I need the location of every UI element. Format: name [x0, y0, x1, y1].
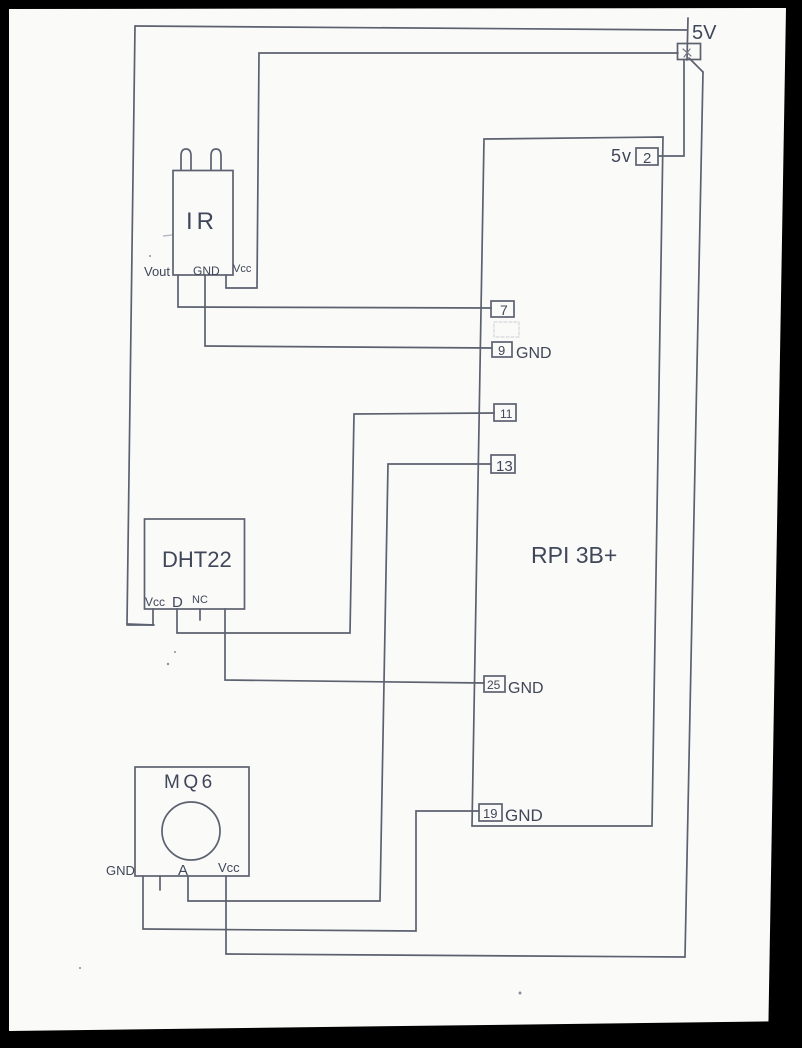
wire pin 13 to MQ6 A	[188, 464, 491, 901]
board RPI 3B+ outline	[472, 137, 663, 826]
MQ6 circle	[162, 802, 220, 860]
paper specks	[79, 159, 647, 995]
wire IR Vout to pin 7	[178, 307, 491, 308]
svg-text:25: 25	[487, 678, 501, 692]
faint erased box under pin 7	[494, 322, 519, 337]
wire 5V long right vertical to MQ6 Vcc rail	[685, 72, 703, 957]
svg-text:RPI 3B+: RPI 3B+	[531, 542, 617, 568]
MQ6 pin Vcc stub	[225, 876, 227, 954]
node 5V connector box	[678, 18, 701, 60]
MQ6 pin GND stub	[142, 876, 144, 929]
pin 25 box	[484, 676, 505, 692]
wire outer-loop bottom stub to DHT22 Vcc	[127, 624, 154, 625]
IR emitter bump right	[211, 149, 221, 170]
wire pin 11 to DHT22 D	[177, 413, 494, 633]
svg-text:DHT22: DHT22	[162, 547, 232, 572]
pin 2 box	[636, 148, 658, 165]
svg-text:GND: GND	[516, 345, 552, 362]
wire 5V diagonal tail	[689, 58, 703, 72]
sensor MQ6 outline	[135, 767, 249, 876]
pin 7 box	[491, 301, 514, 317]
svg-text:NC: NC	[192, 594, 208, 606]
MQ6 pin A stub	[187, 876, 189, 901]
svg-text:IR: IR	[186, 208, 218, 235]
wire MQ6 GND to pin 19	[143, 811, 479, 931]
svg-text:Vcc: Vcc	[145, 595, 165, 609]
sensor IR outline	[173, 171, 233, 276]
wire DHT22 to pin 25 GND	[225, 609, 484, 683]
svg-text:5V: 5V	[692, 22, 717, 44]
DHT22 pin NC stub	[199, 609, 201, 620]
IR emitter bump left	[181, 149, 191, 170]
MQ6 small unused stub	[159, 876, 161, 890]
faint pencil dash left of pin 11 row	[163, 235, 172, 236]
pin 11 box	[494, 404, 516, 421]
svg-text:GND: GND	[193, 264, 220, 278]
DHT22 pin Vcc stub to frame	[127, 609, 153, 625]
svg-text:Vcc: Vcc	[233, 263, 252, 275]
svg-text:13: 13	[496, 458, 513, 475]
IR pin Vout stub	[177, 275, 179, 307]
svg-text:2: 2	[643, 150, 651, 167]
svg-text:Vout: Vout	[144, 264, 170, 279]
IR pin Vcc stub	[225, 275, 227, 288]
svg-text:GND: GND	[508, 680, 544, 697]
svg-text:11: 11	[500, 407, 513, 421]
wire outer-loop left vertical	[127, 26, 135, 624]
wire outer-loop top (5V rail to IR area frame)	[135, 26, 687, 30]
svg-text:D: D	[172, 594, 183, 611]
IR pin GND stub	[204, 275, 206, 346]
wire IR Vcc up to 5V rail	[226, 53, 678, 288]
svg-text:A: A	[178, 862, 188, 879]
svg-text:Vcc: Vcc	[218, 860, 240, 875]
svg-text:19: 19	[483, 806, 497, 821]
wire MQ6 Vcc to 5V rail	[226, 954, 685, 957]
pin 19 box	[479, 804, 502, 821]
svg-text:GND: GND	[106, 863, 135, 878]
svg-text:9: 9	[498, 343, 505, 358]
DHT22 pin D stub	[176, 609, 178, 633]
svg-text:MQ6: MQ6	[164, 772, 216, 793]
svg-text:5v: 5v	[611, 146, 632, 166]
sensor DHT22 outline	[145, 519, 245, 609]
pin 13 box	[491, 455, 515, 473]
wire IR GND to pin 9	[205, 346, 492, 348]
svg-text:7: 7	[500, 302, 508, 318]
pin 9 box	[492, 342, 512, 357]
svg-text:GND: GND	[505, 806, 543, 825]
wire 5V box down to pin 2	[659, 60, 684, 156]
